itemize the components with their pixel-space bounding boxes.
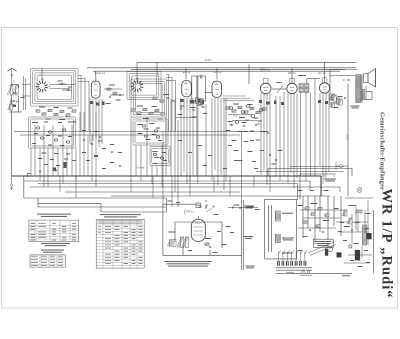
resistor R36 [160, 100, 164, 102]
wire to V5 grid [205, 91, 212, 93]
table 1 header [37, 214, 71, 217]
label value [118, 152, 122, 153]
resistor PSU misc 0 [305, 207, 309, 209]
component cluster under V2 dark [90, 101, 93, 104]
wire [371, 92, 373, 100]
wire [58, 83, 66, 85]
resistor R55 detector cluster [256, 111, 260, 113]
wire inside box1 [50, 84, 77, 86]
wire V6 V7 V8 pin drops [261, 93, 329, 188]
wire choke mid [196, 204, 201, 206]
capacitor PSU misc a [309, 229, 311, 232]
tube V1 ECH11 mixer (socket view) [36, 79, 48, 93]
node junction (217,176) [216, 175, 217, 176]
tube V7 EF11 AF stage [287, 78, 297, 93]
wire secondary out [365, 99, 372, 101]
wire drop to V5 top cap [216, 68, 218, 80]
resistor PSU bleeder 2 [347, 218, 352, 224]
wire PSU right column verticals [352, 200, 368, 258]
resistor R14 tuning cluster [60, 110, 64, 112]
table 2 coils [30, 255, 65, 267]
label value [311, 203, 318, 204]
wire loop bottom [101, 211, 166, 213]
label value [205, 238, 211, 239]
wire output left drop [329, 70, 331, 106]
label value [338, 231, 342, 232]
node junction (221,192) [220, 191, 221, 192]
label value [203, 165, 207, 166]
resistor R33 osc cluster [149, 112, 153, 114]
tube V2 ECH11 [91, 81, 100, 98]
label value [250, 131, 254, 132]
resistor R30 osc cluster [131, 109, 135, 111]
wire eye loop top [163, 203, 196, 205]
label PSU right values [365, 228, 369, 229]
wire switch bank base 1 [276, 267, 312, 269]
wire bundle box1 to V2 nested L paths [78, 76, 89, 132]
capacitor C32 [172, 100, 174, 103]
label eye region value [188, 250, 192, 251]
wire bus 7 [24, 197, 166, 199]
coil box L4 padder nested [133, 119, 168, 145]
label value [143, 118, 149, 119]
resistor R10 tuning cluster [36, 110, 40, 112]
label value [349, 205, 356, 206]
wire [182, 248, 184, 256]
coil box L3 nested [131, 79, 167, 117]
capacitor eye [209, 246, 211, 249]
label input value 2 [21, 97, 25, 98]
svg-text:(7+a-b): (7+a-b) [136, 166, 145, 170]
wire PSU mesh 5 [340, 231, 362, 233]
node junction (153,183.5) [152, 183, 153, 184]
label value [244, 131, 248, 132]
label value [340, 222, 344, 223]
capacitor 40uF symbol [205, 206, 208, 208]
label value [158, 140, 162, 141]
label value [180, 106, 185, 107]
wire psu rail 0 [290, 166, 344, 168]
label value [178, 140, 182, 141]
label bottom right of eye [246, 266, 255, 269]
resistor R13 tuning cluster [54, 113, 58, 115]
capacitor C53 [255, 124, 257, 127]
label value [248, 104, 253, 105]
wire top rail 1 [137, 61, 356, 63]
wire bus 9 [38, 206, 167, 208]
antenna [8, 68, 17, 84]
capacitor C22 [109, 96, 111, 99]
potentiometer PSU with arrow [325, 246, 332, 251]
label value [66, 154, 70, 155]
box coupling V4-V5 [192, 76, 206, 101]
label value [192, 117, 197, 118]
wire PSU vertical x=315 [314, 196, 316, 244]
label value [250, 140, 254, 141]
resistor output divider 2 [337, 99, 342, 105]
label value [60, 145, 64, 146]
switch at bus left [28, 174, 32, 178]
svg-text:40: 40 [229, 123, 233, 127]
capacitor top coupling [200, 76, 202, 79]
resistor eye divider b [182, 237, 189, 248]
label value [64, 159, 68, 160]
wire [351, 169, 353, 177]
label value [334, 208, 339, 209]
resistor PSU misc 1 [311, 213, 315, 215]
wire pair b [197, 76, 199, 100]
capacitor trimmer C-osc2 [67, 89, 70, 91]
wire right edge drop [372, 210, 374, 273]
wire PSU loop right [296, 199, 298, 259]
label value [153, 151, 158, 152]
capacitor C21 [119, 94, 121, 97]
node junction (137,176) [136, 175, 137, 176]
svg-text:A: A [13, 79, 15, 83]
wire bus8 riser [37, 198, 39, 207]
wire top rail 4 [93, 70, 340, 72]
resistor R21 coupling [107, 88, 111, 90]
resistor R54 detector cluster [250, 107, 254, 109]
label value [58, 136, 62, 137]
loudspeaker [364, 69, 376, 88]
label value [298, 205, 303, 206]
label value [86, 160, 90, 161]
node junction (131,181) [130, 180, 131, 181]
resistor R83 [330, 103, 335, 108]
wire PSU mesh 1 [300, 209, 345, 211]
wire psu rail 2 [256, 171, 344, 173]
resistor R32 osc cluster [143, 108, 147, 110]
wire drop to V4 top cap [185, 68, 187, 80]
wire [18, 104, 20, 112]
wire measurement row [228, 207, 258, 209]
wire L5 top [307, 78, 320, 80]
wire [366, 91, 372, 93]
wire [209, 250, 211, 255]
wire measurement vertical [243, 200, 245, 270]
label Netz [342, 275, 350, 276]
label value [310, 190, 314, 191]
label value [48, 145, 52, 146]
wire detector cluster h2 [232, 120, 258, 122]
node junction (190,187) [189, 186, 190, 187]
label value [82, 152, 86, 153]
wire top rail 2 [87, 67, 356, 69]
node tube V1 pin [49, 86, 50, 87]
label value [138, 124, 143, 125]
resistor R53 detector cluster [244, 111, 248, 113]
label value [116, 100, 121, 101]
label value [254, 118, 259, 119]
label value [178, 114, 183, 115]
label value [138, 133, 143, 134]
capacitor 40u a [205, 204, 207, 207]
resistor R15 tuning cluster [66, 114, 70, 116]
wire pair to box1 [23, 76, 25, 110]
label value [56, 165, 60, 166]
wire PSU mesh 2 [303, 217, 340, 219]
component cluster under V8 dark [318, 100, 321, 103]
label value [247, 207, 254, 208]
coil L5b winding [305, 84, 309, 93]
capacitor blob symbols detector cluster [229, 107, 233, 110]
svg-text:EM 11: EM 11 [186, 210, 194, 214]
wire main ground bus (bold) [12, 175, 321, 177]
label 2 lines PSU [282, 238, 294, 241]
capacitor electrolytic main b [355, 250, 360, 261]
wire drop to V8 top [324, 62, 326, 83]
wire diagonal feeds to switch bank [308, 242, 334, 253]
capacitor C55 [269, 154, 271, 157]
label value [364, 250, 368, 251]
wire B+ long drop to PSU [347, 84, 349, 196]
label eye region value [226, 226, 231, 227]
label eye region value [176, 202, 180, 203]
label eye region value [214, 214, 219, 215]
node junction (265,176) [264, 175, 265, 176]
label value [255, 209, 260, 210]
node top [200, 75, 201, 76]
label value [198, 145, 202, 146]
resistor antenna series [7, 86, 13, 96]
wire transformer core 1 [361, 75, 363, 103]
label value [44, 164, 48, 165]
wire antenna input top [11, 84, 19, 86]
label value [39, 107, 45, 108]
switch eye [206, 208, 212, 212]
label value [258, 121, 262, 122]
wire bus 8 left [38, 202, 101, 204]
wire psu rail 3 [300, 173, 336, 175]
label value [94, 155, 98, 156]
label value [46, 135, 50, 136]
wire L5 riser [306, 79, 308, 84]
tube V6 EBC11 detector [260, 78, 271, 94]
wire eye loop right tall [241, 200, 243, 270]
label value [203, 113, 207, 114]
svg-text:220V: 220V [345, 135, 348, 141]
wire pair a [196, 76, 198, 100]
resistor R34 osc cluster [155, 109, 159, 111]
resistor input divider [8, 104, 13, 110]
label value [94, 156, 98, 157]
wire [174, 222, 176, 240]
lamp scale [349, 245, 353, 249]
node junction (294,187) [293, 186, 294, 187]
node junction (76,176) [75, 175, 76, 176]
label value [44, 122, 48, 123]
resistor eye grid 0.3M [167, 240, 176, 247]
label value [228, 121, 233, 122]
label value [58, 122, 62, 123]
wire detector cluster h1 [228, 114, 252, 116]
label value [272, 164, 277, 165]
label value [72, 122, 77, 123]
node junction (324,176) [323, 175, 324, 176]
resistor under box a [194, 98, 199, 104]
caption three lines under magic eye [165, 261, 212, 267]
coil box L4b small nested [150, 147, 170, 166]
resistor R35 [153, 97, 157, 99]
coil L5a winding [299, 84, 303, 93]
coil mains choke b [275, 234, 280, 242]
coil box L2 oscillator nested [127, 72, 161, 100]
capacitor cluster stage2 symbols [99, 136, 101, 139]
label value [278, 150, 283, 151]
component symbols in padder box [142, 125, 145, 127]
wire bus 5 [65, 191, 240, 193]
label value [232, 140, 237, 141]
label eye region value [217, 231, 221, 232]
label value [34, 133, 38, 134]
wire PSU mesh 3 [298, 227, 336, 229]
wire comb stage1 pin drops [31, 112, 96, 187]
label value [68, 108, 73, 109]
label value [298, 250, 303, 251]
label value [228, 145, 232, 146]
mains plug [300, 271, 312, 276]
label value [238, 131, 243, 132]
coil box L1 nested shields [31, 69, 79, 107]
label trimmer [58, 81, 63, 82]
wire bus2 corner [309, 181, 311, 190]
label value [94, 131, 98, 132]
potentiometer wiper arrow [277, 87, 282, 94]
wire PSU loop bottom [265, 258, 297, 260]
node junction (241,176) [240, 175, 241, 176]
switch bank mains selector [277, 250, 307, 266]
svg-text:ECH 11: ECH 11 [95, 71, 105, 75]
wire PSU vertical x=328 [327, 196, 329, 240]
wire bus9 right riser [165, 198, 167, 212]
capacitor 40u b [212, 205, 214, 208]
fuse holder bottom right [336, 162, 348, 170]
table 3 header [100, 214, 141, 217]
label value [46, 119, 51, 120]
wire output top 2 [330, 75, 355, 77]
label value [54, 107, 59, 108]
wire [299, 174, 301, 199]
capacitor 3n tone [347, 79, 349, 82]
resistor R81 screen chain [330, 94, 335, 100]
wire V4 V5 pin drops [181, 98, 224, 190]
label value [155, 157, 160, 158]
capacitor C54 [267, 132, 269, 135]
wire eye internal 1 [175, 221, 222, 223]
component cluster under V6/V7 dark [259, 100, 262, 103]
label value [32, 143, 36, 144]
label PSU right values [366, 262, 370, 263]
label value [102, 168, 106, 169]
wire PSU low link 2 [344, 262, 370, 264]
label value [355, 222, 360, 223]
svg-text:WR 1/P „Rudi“: WR 1/P „Rudi“ [379, 189, 395, 298]
label value [298, 190, 303, 191]
node junction (334,176) [333, 175, 334, 176]
wire drop rail mid [248, 65, 250, 85]
capacitor C31 [167, 97, 169, 100]
resistor PSU misc 2 [318, 207, 322, 209]
label Netzspannung top [244, 206, 254, 209]
wire drop to V3 top [136, 62, 138, 80]
resistor R22 [113, 92, 117, 94]
label value [338, 96, 343, 97]
wire eye loop bottom [163, 254, 242, 256]
wire bundle V5 to V6 horizontals [223, 96, 254, 100]
capacitor C52 [243, 125, 245, 128]
label value [72, 160, 76, 161]
wire eye top feed [197, 216, 199, 220]
resistor eye divider a [177, 237, 184, 248]
capacitor C51 [231, 124, 233, 127]
capacitor cluster stage1 symbols [83, 139, 85, 142]
label value [191, 107, 196, 108]
transformer power winding [363, 225, 367, 245]
label value [146, 139, 151, 140]
svg-text:EF 13: EF 13 [214, 70, 222, 74]
wire PSU low link [348, 254, 372, 256]
wire [267, 169, 269, 177]
capacitor electrolytic main a [366, 233, 371, 239]
label value [334, 107, 339, 108]
resistor PSU misc 3 [325, 214, 329, 216]
wire PSU loop left [264, 199, 266, 259]
label value [82, 130, 86, 131]
wire [221, 222, 223, 248]
resistor PSU misc 5 [316, 225, 320, 227]
label value [366, 213, 371, 214]
node junction (96,181) [95, 180, 96, 181]
label Netzanschluss 3 lines [315, 241, 331, 246]
svg-text:EF 11: EF 11 [183, 70, 191, 74]
label Lautstaerke right of loop [244, 236, 253, 239]
label value [162, 152, 166, 153]
wire PSU vertical x=334 [333, 196, 335, 226]
label value [106, 103, 111, 104]
wire drop to V7 top [291, 68, 293, 84]
label value [163, 160, 167, 161]
label value [248, 151, 253, 152]
resistor R82 [335, 98, 340, 104]
wire PSU vertical x=308 [307, 196, 309, 228]
resistor under box b [199, 99, 204, 105]
capacitor PSU misc b [322, 231, 324, 234]
wire main bus corner drop [320, 176, 322, 196]
wire V2 pin drops [90, 99, 102, 147]
label eye region value [213, 252, 218, 253]
capacitor antenna coupling [13, 100, 15, 103]
label value [260, 150, 264, 151]
label value [38, 158, 42, 159]
resistor R52 detector cluster [238, 106, 242, 108]
label eye region value [230, 232, 234, 233]
label value [252, 161, 256, 162]
table 2 header [41, 250, 64, 253]
label value [68, 136, 72, 137]
box Netzanschluss label [313, 239, 333, 247]
label value [344, 226, 350, 227]
bracket AM2 [184, 210, 187, 215]
svg-text:1M: 1M [245, 118, 249, 122]
wire output top 1 [330, 69, 358, 71]
label value [323, 220, 329, 221]
label value [223, 168, 227, 169]
wire PSU loop top [265, 198, 298, 200]
label value [156, 128, 160, 129]
wire [18, 85, 20, 89]
label PSU right values [358, 266, 363, 267]
